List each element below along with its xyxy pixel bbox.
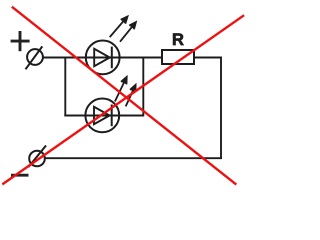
LED D2 light arrow 2: [126, 85, 136, 107]
minus sign: [11, 174, 29, 177]
resistor R body: [162, 50, 194, 64]
red cross line backslash: [12, 7, 237, 185]
LED D2 diode triangle: [94, 107, 110, 124]
LED D1 circle: [86, 41, 120, 75]
terminal J2 slash: [29, 146, 47, 168]
wire bottom from terminal J2 to bottom-right corner: [46, 157, 223, 159]
plus sign: [11, 31, 30, 51]
terminal J1 (+) circle: [27, 49, 43, 65]
LED D2 light arrow 1: [115, 77, 127, 102]
LED D1 cathode bar: [111, 47, 113, 69]
red cross line slash: [2, 15, 244, 184]
svg-text:R: R: [172, 31, 184, 49]
wire top from terminal J1 to resistor R: [44, 57, 163, 59]
LED D2 cathode bar: [111, 105, 113, 127]
wire right vertical: [220, 57, 222, 159]
wire right branch vertical (node B junction up): [142, 58, 144, 117]
wire from resistor R to top-right corner: [194, 57, 221, 59]
wire LED D2 branch horizontal: [64, 115, 143, 117]
LED D1 light arrow 1: [110, 17, 128, 38]
terminal J1 slash: [26, 46, 43, 69]
LED D1 diode triangle: [94, 49, 110, 66]
wire left branch vertical (node A junction down): [64, 58, 66, 116]
LED D1 light arrow 2: [120, 22, 136, 42]
LED D2 circle: [85, 99, 119, 133]
terminal J2 (-) circle: [29, 151, 45, 167]
